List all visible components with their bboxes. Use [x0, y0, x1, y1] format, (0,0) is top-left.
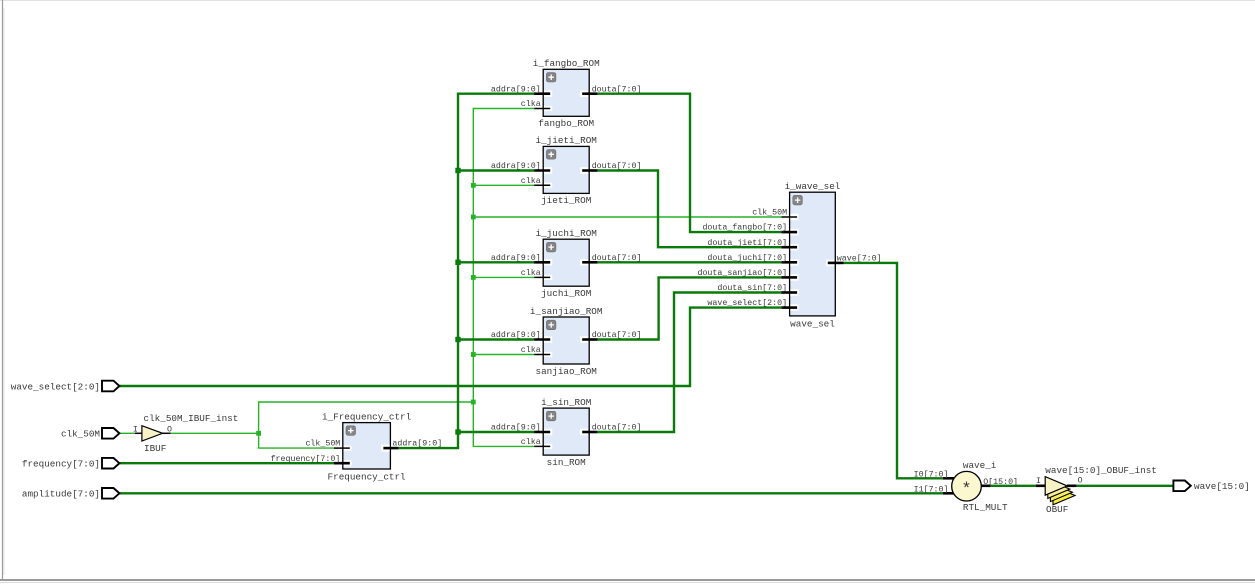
wire clk branch down to i_Frequency_ctrl clk_50M (scalar) [259, 433, 335, 448]
svg-text:clka: clka [521, 176, 541, 186]
svg-text:O: O [167, 426, 172, 435]
svg-text:jieti_ROM: jieti_ROM [541, 195, 591, 206]
pin addra[9:0] of i_sin_ROM [534, 431, 550, 434]
module block i_fangbo_ROM (ROM instance) [491, 58, 642, 129]
svg-text:frequency[7:0]: frequency[7:0] [22, 459, 100, 470]
pin douta[7:0] of i_jieti_ROM [582, 169, 597, 172]
pin wave_select[2:0] of i_wave_sel [782, 306, 798, 309]
wire addra[9:0] trunk from i_Frequency_ctrl up to i_fangbo_ROM (bus) [398, 94, 534, 448]
junction clk node trunk [471, 400, 476, 405]
svg-text:clka: clka [521, 268, 541, 278]
canvas bottom border [0, 579, 1255, 581]
svg-text:addra[9:0]: addra[9:0] [491, 84, 541, 94]
svg-text:wave[7:0]: wave[7:0] [837, 253, 882, 263]
output port wave[15:0] [1173, 481, 1249, 493]
pin addra[9:0] of i_juchi_ROM [534, 261, 550, 264]
junction clk node wave_sel [471, 215, 476, 220]
wire IBUF output to junction (scalar) [171, 432, 259, 434]
svg-text:*: * [961, 481, 971, 500]
wire clk branch to i_juchi_ROM clka (scalar) [473, 276, 534, 278]
module block i_Frequency_ctrl [271, 411, 443, 482]
svg-text:douta_sanjiao[7:0]: douta_sanjiao[7:0] [697, 268, 787, 278]
svg-text:sanjiao_ROM: sanjiao_ROM [536, 366, 597, 377]
wire clk branch to i_jieti_ROM clka (scalar) [473, 184, 534, 186]
wire clk trunk up to i_fangbo_ROM clka (scalar) [473, 109, 534, 403]
multiplier wave_i (RTL_MULT) [914, 460, 1018, 513]
canvas left border [2, 0, 4, 580]
svg-text:O[15:0]: O[15:0] [983, 477, 1018, 487]
svg-text:IBUF: IBUF [144, 443, 166, 454]
pin douta_jieti[7:0] of i_wave_sel [782, 246, 798, 249]
pin addra[9:0] of i_fangbo_ROM [534, 92, 550, 95]
wire amplitude[7:0] from port to RTL_MULT I1 (bus) [119, 492, 942, 494]
svg-text:i_juchi_ROM: i_juchi_ROM [536, 228, 597, 239]
wire addra branch to i_sin_ROM (bus) [458, 431, 534, 433]
svg-text:i_sanjiao_ROM: i_sanjiao_ROM [530, 306, 603, 317]
pin douta_sin[7:0] of i_wave_sel [782, 291, 798, 294]
pin wave[7:0] of i_wave_sel [828, 262, 844, 265]
pin douta[7:0] of i_sin_ROM [582, 431, 597, 434]
svg-text:amplitude[7:0]: amplitude[7:0] [22, 489, 100, 500]
junction addra node jieti [455, 168, 460, 173]
svg-text:i_jieti_ROM: i_jieti_ROM [536, 135, 597, 146]
pin douta[7:0] of i_juchi_ROM [582, 261, 597, 264]
input port frequency[7:0] [22, 458, 120, 470]
svg-text:clka: clka [521, 99, 541, 109]
svg-text:I: I [1036, 477, 1041, 486]
svg-text:wave_sel: wave_sel [790, 318, 835, 329]
svg-text:frequency[7:0]: frequency[7:0] [271, 454, 341, 464]
svg-text:clka: clka [521, 345, 541, 355]
svg-text:I: I [133, 426, 138, 435]
junction addra node sanjiao [455, 337, 460, 342]
svg-text:clk_50M: clk_50M [752, 208, 787, 218]
pin clka of i_jieti_ROM [534, 184, 550, 186]
wire douta_sin[7:0] (bus) [597, 293, 782, 433]
junction clk node sanjiao [471, 352, 476, 357]
svg-text:addra[9:0]: addra[9:0] [491, 161, 541, 171]
module block i_wave_sel (waveform selector) [697, 181, 881, 329]
wire douta_jieti[7:0] (bus) [597, 171, 782, 248]
pin clka of i_sin_ROM [534, 445, 550, 447]
wire douta_fangbo[7:0] (bus) [597, 94, 782, 232]
svg-text:clk_50M_IBUF_inst: clk_50M_IBUF_inst [144, 413, 239, 424]
input port clk_50M [61, 428, 119, 440]
svg-text:wave[15:0]_OBUF_inst: wave[15:0]_OBUF_inst [1045, 465, 1157, 476]
wire addra branch to i_jieti_ROM (bus) [458, 169, 534, 171]
pin addra[9:0] of i_jieti_ROM [534, 169, 550, 172]
svg-text:douta_juchi[7:0]: douta_juchi[7:0] [707, 253, 787, 263]
canvas top border [0, 0, 1255, 2]
input port amplitude[7:0] [22, 488, 120, 500]
junction addra node sin [455, 429, 460, 434]
module block i_juchi_ROM (ROM instance) [491, 228, 642, 299]
pin clka of i_juchi_ROM [534, 276, 550, 278]
svg-text:I1[7:0]: I1[7:0] [914, 484, 949, 494]
svg-text:O: O [1078, 477, 1083, 486]
buffer wave[15:0]_OBUF_inst (OBUF, stacked multi-bit) [1036, 465, 1157, 515]
module block i_jieti_ROM (ROM instance) [491, 135, 642, 206]
wire clk branch down to i_sin_ROM clka (scalar) [473, 402, 534, 446]
svg-text:i_wave_sel: i_wave_sel [785, 181, 841, 192]
input port wave_select[2:0] [11, 381, 120, 393]
svg-text:douta_jieti[7:0]: douta_jieti[7:0] [707, 238, 787, 248]
svg-text:i_sin_ROM: i_sin_ROM [541, 397, 591, 408]
svg-text:RTL_MULT: RTL_MULT [963, 502, 1008, 513]
buffer clk_50M_IBUF_inst (IBUF) [133, 413, 239, 454]
svg-text:addra[9:0]: addra[9:0] [491, 423, 541, 433]
svg-text:juchi_ROM: juchi_ROM [541, 288, 591, 299]
svg-text:wave_select[2:0]: wave_select[2:0] [707, 298, 787, 308]
junction clk node at IBUF output [256, 431, 261, 436]
pin addra[9:0] of i_Frequency_ctrl [383, 447, 398, 450]
wire clk branch to i_sanjiao_ROM clka (scalar) [473, 354, 534, 356]
wire frequency[7:0] from port to i_Frequency_ctrl (bus) [119, 462, 334, 464]
wire clk branch up and right (scalar) [259, 402, 474, 433]
junction clk node jieti [471, 183, 476, 188]
wire douta_juchi[7:0] (bus) [597, 261, 782, 263]
pin clk_50M of i_Frequency_ctrl [334, 447, 350, 449]
svg-text:douta[7:0]: douta[7:0] [592, 330, 642, 340]
svg-text:Frequency_ctrl: Frequency_ctrl [328, 472, 407, 483]
pin clka of i_sanjiao_ROM [534, 354, 550, 356]
pin addra[9:0] of i_sanjiao_ROM [534, 338, 550, 341]
wire addra branch to i_sanjiao_ROM (bus) [458, 338, 534, 340]
pin clk_50M of i_wave_sel [782, 216, 798, 218]
module block i_sin_ROM (ROM instance) [491, 397, 642, 468]
svg-text:wave_i: wave_i [963, 460, 997, 471]
svg-text:fangbo_ROM: fangbo_ROM [538, 118, 594, 129]
svg-text:sin_ROM: sin_ROM [547, 457, 586, 468]
junction addra node juchi [455, 260, 460, 265]
pin douta_fangbo[7:0] of i_wave_sel [782, 231, 798, 234]
svg-text:wave_select[2:0]: wave_select[2:0] [11, 381, 100, 392]
pin frequency[7:0] of i_Frequency_ctrl [334, 462, 350, 465]
svg-text:douta[7:0]: douta[7:0] [592, 161, 642, 171]
wire wave[15:0] from OBUF to output port (bus) [1076, 485, 1173, 487]
svg-text:clka: clka [521, 437, 541, 447]
wire clk branch to i_wave_sel clk_50M (scalar) [473, 216, 782, 218]
wire wave[7:0] from i_wave_sel to RTL_MULT I0 (bus) [844, 263, 943, 478]
wire wave_select[2:0] from port to i_wave_sel (bus) [119, 308, 782, 386]
svg-text:i_fangbo_ROM: i_fangbo_ROM [533, 58, 600, 69]
module block i_sanjiao_ROM (ROM instance) [491, 306, 642, 377]
pin douta_juchi[7:0] of i_wave_sel [782, 261, 798, 264]
wire clk_50M port to IBUF input (scalar) [119, 432, 134, 434]
svg-text:OBUF: OBUF [1046, 504, 1068, 515]
svg-text:I0[7:0]: I0[7:0] [914, 469, 949, 479]
svg-text:i_Frequency_ctrl: i_Frequency_ctrl [322, 411, 412, 422]
svg-text:addra[9:0]: addra[9:0] [491, 330, 541, 340]
pin clka of i_fangbo_ROM [534, 108, 550, 110]
pin douta[7:0] of i_fangbo_ROM [582, 92, 597, 95]
svg-text:addra[9:0]: addra[9:0] [491, 253, 541, 263]
junction clk node juchi [471, 275, 476, 280]
svg-text:douta[7:0]: douta[7:0] [592, 253, 642, 263]
wire douta_sanjiao[7:0] (bus) [597, 277, 782, 339]
svg-text:douta[7:0]: douta[7:0] [592, 84, 642, 94]
svg-text:douta_fangbo[7:0]: douta_fangbo[7:0] [702, 223, 787, 233]
pin douta[7:0] of i_sanjiao_ROM [582, 338, 597, 341]
wire O[15:0] from RTL_MULT to OBUF (bus) [990, 485, 1036, 487]
svg-text:clk_50M: clk_50M [61, 429, 100, 440]
svg-text:clk_50M: clk_50M [305, 439, 340, 449]
svg-text:wave[15:0]: wave[15:0] [1194, 481, 1250, 492]
svg-text:addra[9:0]: addra[9:0] [392, 439, 442, 449]
pin douta_sanjiao[7:0] of i_wave_sel [782, 276, 798, 279]
svg-text:douta[7:0]: douta[7:0] [592, 423, 642, 433]
wire addra branch to i_juchi_ROM (bus) [458, 261, 534, 263]
svg-text:douta_sin[7:0]: douta_sin[7:0] [717, 283, 787, 293]
